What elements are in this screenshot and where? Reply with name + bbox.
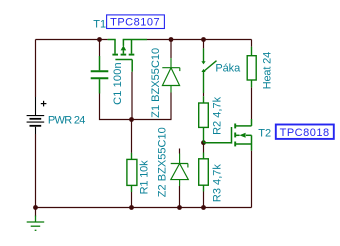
label box TPC8107 — [107, 15, 165, 29]
resistor R1 — [127, 153, 137, 192]
wire top rail middle (T1 drain to heat column) — [147, 39, 252, 41]
junction node Z2 bottom — [177, 205, 182, 210]
svg-text:Z2 BZX55C10: Z2 BZX55C10 — [156, 127, 168, 197]
junction node R3 bottom — [201, 205, 206, 210]
wire top rail left (battery+ to T1 source) — [36, 39, 108, 41]
svg-text:TPC8107: TPC8107 — [110, 17, 160, 29]
resistor R3 — [199, 153, 209, 192]
wire C1 bottom to gate node — [100, 94, 172, 120]
wire battery column bottom — [35, 134, 37, 208]
wire T1 gate down — [131, 72, 133, 120]
junction node gate — [129, 117, 134, 122]
wire battery column top — [35, 40, 37, 98]
wire T2 source column — [251, 151, 253, 208]
wire bottom rail — [36, 207, 252, 209]
junction node battery bottom — [33, 205, 38, 210]
svg-text:Páka: Páka — [215, 62, 241, 74]
junction node R1 bottom — [129, 205, 134, 210]
wire C1 top — [99, 40, 101, 57]
wire gate node to R1 — [131, 120, 133, 153]
junction node C1 top — [97, 37, 102, 42]
junction node switch top — [201, 37, 206, 42]
T1 body arrow — [121, 45, 127, 50]
wire R3 top — [203, 143, 205, 153]
svg-text:T2: T2 — [258, 127, 271, 139]
wire Z2 top segment — [179, 149, 181, 154]
wire Z2 bottom — [179, 186, 181, 208]
wire R3 bottom — [203, 192, 205, 208]
svg-text:R3 4,7k: R3 4,7k — [212, 164, 224, 203]
battery PWR 24 — [35, 97, 37, 134]
wire heat bottom to T2 drain — [251, 87, 253, 119]
wire switch bottom to R2 — [203, 93, 205, 96]
junction node Z1 top — [169, 37, 174, 42]
svg-text:Heat 24: Heat 24 — [261, 52, 273, 90]
battery plus sign — [41, 101, 47, 107]
T2 body arrow — [239, 133, 245, 138]
transistor T1 TPC8107 — [108, 40, 147, 72]
switch Páka — [204, 48, 217, 93]
zener Z2 BZX55C10 — [171, 154, 189, 187]
svg-text:R1 10k: R1 10k — [138, 160, 150, 195]
resistor R2 — [199, 96, 209, 143]
ground — [35, 208, 37, 217]
svg-text:R2 4,7k: R2 4,7k — [212, 96, 224, 135]
label box TPC8018 — [276, 125, 334, 139]
wire R1 bottom — [131, 192, 133, 208]
svg-text:T1: T1 — [93, 19, 106, 31]
junction node T2 gate — [201, 140, 206, 145]
wire switch top — [203, 40, 205, 49]
svg-text:TPC8018: TPC8018 — [280, 127, 330, 139]
zener Z1 BZX55C10 — [162, 58, 180, 92]
wire Z1 bottom — [170, 93, 172, 120]
switch arrow contacts — [201, 61, 205, 64]
svg-text:C1 100n: C1 100n — [112, 62, 124, 105]
resistor Heat 24 — [247, 47, 256, 88]
transistor T2 TPC8018 — [204, 119, 252, 151]
wire heat top — [251, 40, 253, 47]
svg-text:PWR 24: PWR 24 — [48, 115, 86, 127]
svg-text:Z1 BZX55C10: Z1 BZX55C10 — [150, 48, 162, 118]
wire Z1 top — [170, 40, 172, 59]
capacitor C1 — [99, 56, 101, 94]
